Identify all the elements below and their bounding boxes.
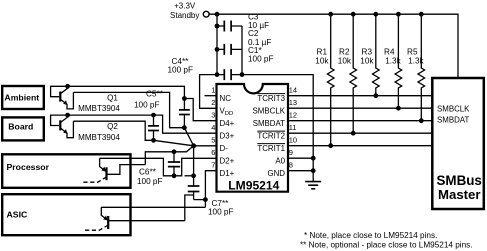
svg-text:C7**: C7** [212, 199, 230, 208]
svg-text:D2+: D2+ [220, 156, 235, 165]
node: C6 bottom [172, 173, 177, 178]
IC U1 LM95214 [217, 84, 289, 193]
svg-text:SMBDAT: SMBDAT [437, 116, 469, 125]
pin 4 D3+ [211, 123, 234, 140]
svg-text:SMBDAT: SMBDAT [253, 119, 285, 128]
wire: ASIC emitter line [101, 206, 205, 208]
pin 3 D4+ [211, 111, 234, 128]
node: C5 bottom [151, 138, 156, 143]
wire: processor emitter to pin 6 (D2+) [100, 158, 217, 176]
svg-text:1: 1 [211, 86, 215, 95]
svg-text:2: 2 [211, 98, 215, 107]
svg-text:5: 5 [211, 136, 215, 145]
node: C5 top [151, 113, 156, 118]
ASIC box [2, 194, 130, 235]
wire: caps left rail (VDD) [216, 14, 218, 74]
svg-text:D1+: D1+ [220, 169, 235, 178]
capacitor C5 [134, 90, 164, 141]
svg-text:Board: Board [8, 122, 33, 132]
svg-text:TCRIT3: TCRIT3 [257, 94, 285, 103]
svg-text:C3: C3 [248, 12, 259, 21]
wire: processor base D- to pin5 junction [145, 146, 193, 165]
svg-text:11: 11 [289, 123, 297, 132]
node: C2 left [215, 47, 220, 52]
pin 6 D2+ [211, 148, 234, 165]
pin 1 NC [205, 86, 232, 103]
svg-text:100 pF: 100 pF [168, 66, 194, 75]
pin 7 D1+ [211, 161, 234, 178]
capacitor C7 [188, 176, 234, 217]
resistor R4 [384, 12, 402, 111]
svg-text:8: 8 [289, 161, 293, 170]
svg-text:MMBT3904: MMBT3904 [78, 133, 120, 142]
svg-text:10k: 10k [360, 57, 374, 66]
wire: D- down to C7 top [193, 146, 195, 176]
svg-text:100 pF: 100 pF [208, 208, 234, 217]
node: C1 right [240, 72, 245, 77]
wire: caps right rail to ground [242, 26, 313, 182]
wire: Q1 D+ to pin 3 (D4+) [68, 86, 185, 98]
svg-text:NC: NC [220, 94, 232, 103]
pin 14 TCRIT3 [257, 86, 432, 103]
wire: pin 5 stub [194, 145, 217, 147]
svg-text:13: 13 [289, 98, 297, 107]
wire: C7 top stub left [185, 175, 194, 177]
wire: Q2 emitter D- return [73, 121, 153, 140]
svg-text:7: 7 [211, 161, 215, 170]
wire: Q1 emitter D- return [73, 92, 184, 127]
svg-text:10: 10 [289, 136, 297, 145]
wire: ASIC base D- riser to C7 bottom lead [185, 195, 194, 221]
power terminal +3.3V Standby [170, 1, 209, 20]
svg-text:Q1: Q1 [107, 93, 118, 102]
svg-text:100 pF: 100 pF [248, 55, 274, 64]
svg-text:LM95214: LM95214 [228, 179, 279, 193]
wire: D- diagonal to pin 5 [184, 128, 193, 146]
wire: C5 bottom to pin5 junction (slant) [154, 140, 194, 146]
svg-text:100 pF: 100 pF [137, 177, 163, 186]
svg-text:4: 4 [211, 123, 215, 132]
pin 11 TCRIT2 [257, 123, 432, 140]
node: C6 top [172, 149, 177, 154]
wire: +3.3V top rail [209, 14, 458, 78]
svg-text:D3+: D3+ [220, 131, 235, 140]
svg-text:C2: C2 [248, 29, 259, 38]
svg-text:10k: 10k [338, 57, 352, 66]
capacitor C2 [217, 29, 271, 55]
svg-text:Standby: Standby [170, 11, 199, 20]
svg-text:1.3k: 1.3k [385, 57, 401, 66]
svg-text:C6**: C6** [139, 167, 157, 176]
pin 5 D- [211, 136, 228, 153]
svg-text:Master: Master [438, 187, 481, 202]
node: C1 left [215, 72, 220, 77]
ground [305, 182, 321, 189]
resistor R5 [407, 12, 425, 123]
wire: pin 7 (D1+) down to ASIC emitter [205, 171, 216, 208]
pin 9 A0 [275, 148, 315, 165]
capacitor C6 [137, 152, 180, 186]
svg-text:R1: R1 [317, 48, 328, 57]
svg-text:MMBT3904: MMBT3904 [78, 104, 120, 113]
Processor box [2, 154, 130, 188]
svg-text:R2: R2 [339, 48, 350, 57]
pin 13 SMBCLK [253, 98, 433, 115]
Ambient box [2, 86, 44, 109]
svg-text:GND: GND [267, 169, 285, 178]
svg-text:R5: R5 [407, 48, 418, 57]
node: D- pin5 junction [191, 143, 196, 148]
svg-text:10k: 10k [315, 57, 329, 66]
transistor Q1 MMBT3904 [51, 84, 121, 113]
resistor R3 [360, 12, 379, 98]
svg-text:TCRIT2: TCRIT2 [257, 131, 285, 140]
node: C7 bottom / D1+ [203, 197, 208, 202]
svg-text:D-: D- [220, 144, 229, 153]
svg-text:SMBCLK: SMBCLK [437, 104, 470, 113]
svg-text:100 pF: 100 pF [134, 101, 160, 110]
pin 10 TCRIT1 [257, 136, 432, 153]
svg-text:C5**: C5** [146, 90, 164, 99]
svg-text:ASIC: ASIC [7, 210, 28, 220]
resistor R2 [338, 12, 357, 136]
node: VDD rail junction [215, 12, 220, 17]
capacitor C4 [168, 57, 194, 128]
svg-text:C4**: C4** [172, 57, 190, 66]
svg-text:* Note, place close to LM95214: * Note, place close to LM95214 pins. [304, 231, 437, 240]
wire: C7 bottom to pin 7 vertical [194, 199, 206, 201]
capacitor C3 [217, 12, 269, 31]
svg-text:SMBCLK: SMBCLK [253, 106, 286, 115]
resistor R1 [315, 12, 334, 148]
transistor Q3 processor substrate PNP [81, 158, 145, 182]
svg-text:VDD: VDD [220, 106, 234, 117]
transistor Q4 ASIC substrate PNP [83, 207, 185, 230]
pin 12 SMBDAT [253, 111, 433, 128]
node: C4 bottom / D- [182, 125, 187, 130]
svg-text:** Note, optional - place clos: ** Note, optional - place close to LM952… [300, 241, 473, 250]
svg-text:A0: A0 [275, 156, 285, 165]
SMBus Master box [432, 78, 484, 209]
svg-text:3: 3 [211, 111, 215, 120]
node: C7 top [191, 173, 196, 178]
svg-text:SMBus: SMBus [437, 173, 482, 188]
svg-text:R4: R4 [384, 48, 395, 57]
wire: Q2 D+ to pin 4 (D3+) [68, 115, 217, 133]
svg-text:Ambient: Ambient [4, 92, 39, 102]
svg-text:Q2: Q2 [107, 122, 118, 131]
svg-text:12: 12 [289, 111, 297, 120]
svg-text:+3.3V: +3.3V [174, 1, 196, 10]
node: C4 top [182, 96, 187, 101]
svg-text:Processor: Processor [7, 162, 50, 172]
svg-text:14: 14 [289, 86, 297, 95]
svg-text:D4+: D4+ [220, 119, 235, 128]
svg-text:TCRIT1: TCRIT1 [257, 144, 285, 153]
pin 2 VDD [211, 98, 233, 117]
svg-text:1.3k: 1.3k [408, 57, 424, 66]
wire: VDD to pin 2 [200, 75, 217, 109]
svg-text:9: 9 [289, 148, 293, 157]
svg-text:6: 6 [211, 148, 215, 157]
svg-text:R3: R3 [362, 48, 373, 57]
capacitor C1 [217, 46, 274, 80]
transistor Q2 MMBT3904 [51, 113, 121, 142]
Board box [2, 117, 44, 140]
pin 8 GND [267, 161, 315, 178]
node: C3 left [215, 24, 220, 29]
